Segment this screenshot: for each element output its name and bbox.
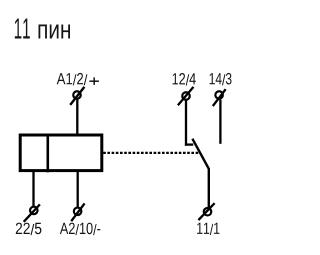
label 22/5 (16, 223, 42, 236)
terminal 14 (213, 89, 226, 106)
label 12/4 (173, 73, 196, 86)
wire 14 down (219, 100, 221, 144)
terminal 11 (198, 203, 214, 220)
coil divider (46, 134, 49, 173)
label A2/10/- (60, 223, 100, 236)
actuator dotted link (103, 152, 199, 154)
wire coil to A2 (77, 171, 79, 207)
terminal 22 (24, 204, 40, 221)
label A1/2/+ (57, 73, 88, 86)
switch blade and wire to 11 (192, 139, 208, 208)
label 11/1 (197, 223, 219, 235)
wire coil to 22 (32, 171, 34, 206)
terminal A2 (71, 203, 84, 221)
wire A1 to coil (76, 100, 78, 135)
terminal A1 (70, 87, 84, 105)
wire 12 down (185, 100, 187, 145)
contact 12 bar (185, 143, 193, 145)
label 14/3 (210, 73, 232, 86)
title 11 пин (15, 19, 30, 39)
coil box (20, 135, 102, 171)
terminal 12 (178, 87, 194, 105)
